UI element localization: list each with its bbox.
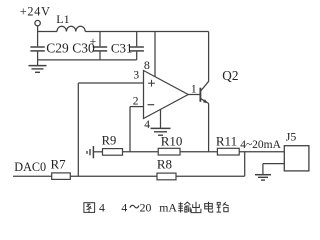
- wire R11 to J5: [239, 151, 284, 153]
- transistor Q2: [199, 88, 201, 102]
- wire top bus left: [38, 31, 57, 33]
- svg-text:2: 2: [133, 96, 139, 108]
- svg-text:C29: C29: [46, 41, 69, 56]
- svg-text:Q2: Q2: [222, 68, 238, 83]
- wire inverting riser: [129, 107, 131, 152]
- svg-text:mA: mA: [159, 200, 177, 214]
- wire top bus right: [85, 31, 208, 33]
- svg-text:DAC0: DAC0: [14, 160, 46, 174]
- svg-text:4: 4: [99, 200, 105, 214]
- caption hanzi chu: [191, 202, 201, 213]
- op-amp plus input mark: [148, 82, 155, 84]
- svg-text:4: 4: [121, 200, 127, 214]
- op-amp minus input mark: [148, 104, 155, 106]
- svg-text:4~20mA: 4~20mA: [240, 139, 281, 151]
- svg-text:R7: R7: [51, 157, 67, 172]
- wire emitter drop: [208, 104, 210, 152]
- wire pin8: [154, 32, 156, 77]
- svg-text:20: 20: [140, 200, 152, 214]
- resistor R7: [52, 173, 71, 180]
- wire R10 to R11: [180, 151, 217, 153]
- wire DAC0 input: [13, 175, 52, 177]
- wire bottom bus: [38, 59, 137, 61]
- svg-text:R9: R9: [102, 134, 117, 148]
- ground under op-amp pin 4: [151, 127, 171, 129]
- svg-text:8: 8: [144, 58, 150, 72]
- svg-text:R11: R11: [216, 133, 237, 148]
- resistor R8: [157, 173, 176, 180]
- capacitor C29: [37, 32, 39, 47]
- wire op-amp output: [188, 94, 199, 96]
- wire pin 3 input: [78, 82, 143, 84]
- svg-text:L1: L1: [56, 12, 69, 26]
- wire collector riser: [208, 32, 210, 82]
- svg-text:C31: C31: [111, 41, 133, 56]
- caption hanzi dian: [205, 202, 213, 212]
- svg-text:+: +: [90, 36, 97, 48]
- resistor R10: [158, 148, 180, 155]
- caption hanzi lu: [217, 202, 229, 212]
- ground under C29: [37, 60, 39, 66]
- inductor L1: [57, 26, 85, 31]
- svg-text:3: 3: [133, 70, 139, 82]
- wire R9 to R10: [123, 151, 159, 153]
- wire pin 2 input: [130, 106, 144, 108]
- wire J5 ground pin: [263, 163, 284, 165]
- svg-text:4: 4: [144, 119, 150, 131]
- caption: tu 4 4~20 mA shu chu dian lu: [84, 200, 229, 214]
- capacitor C30: [99, 32, 101, 47]
- op-amp: [144, 71, 189, 119]
- svg-text:R8: R8: [157, 156, 172, 171]
- resistor R11: [217, 148, 239, 155]
- caption hanzi tu: [84, 203, 95, 213]
- capacitor C31: [136, 32, 138, 47]
- ground sideways at R9: [94, 151, 103, 153]
- svg-text:J5: J5: [286, 130, 297, 144]
- wire noninverting riser: [77, 83, 79, 176]
- resistor R9: [103, 149, 123, 156]
- node +24V terminal: [35, 20, 40, 25]
- wire terminal stem: [37, 26, 39, 32]
- svg-text:1: 1: [191, 83, 197, 95]
- wire pin 4 stem: [160, 109, 162, 128]
- wire R7 to R8: [70, 175, 157, 177]
- wire R8 to output node: [176, 175, 245, 177]
- caption wide tilde: [130, 205, 139, 208]
- ground at J5: [262, 164, 264, 175]
- wire feedback riser: [244, 152, 246, 176]
- svg-text:R10: R10: [161, 133, 183, 148]
- connector J5: [284, 146, 309, 171]
- svg-text:+24V: +24V: [20, 5, 51, 19]
- caption hanzi shu: [178, 202, 190, 212]
